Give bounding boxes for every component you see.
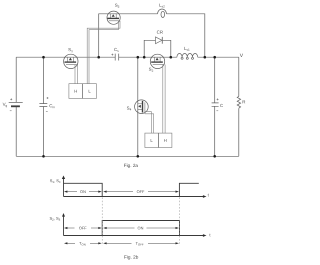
svg-text:S1: S1: [68, 47, 73, 53]
svg-text:Vg: Vg: [3, 102, 8, 108]
svg-text:L: L: [150, 138, 153, 143]
svg-text:H: H: [164, 138, 167, 143]
svg-text:ON: ON: [80, 189, 86, 194]
svg-text:V: V: [240, 53, 244, 59]
svg-text:S1, S4: S1, S4: [50, 178, 61, 184]
svg-text:H: H: [74, 89, 77, 94]
svg-text:Cs: Cs: [114, 47, 119, 53]
svg-text:L: L: [88, 89, 91, 94]
svg-text:TOFF: TOFF: [136, 241, 144, 247]
svg-text:S4: S4: [127, 106, 132, 112]
svg-text:Fig. 2b: Fig. 2b: [124, 255, 139, 260]
svg-text:OFF: OFF: [137, 189, 145, 194]
svg-text:S2: S2: [149, 67, 154, 73]
svg-text:Ls1: Ls1: [184, 46, 190, 52]
svg-text:ON: ON: [138, 225, 144, 230]
svg-text:t: t: [208, 192, 210, 197]
svg-text:Cin: Cin: [49, 103, 55, 109]
svg-text:CR: CR: [157, 30, 163, 35]
svg-text:Fig. 2a: Fig. 2a: [124, 163, 139, 168]
svg-text:Ls2: Ls2: [159, 3, 165, 9]
svg-text:TON: TON: [79, 241, 86, 247]
svg-text:OFF: OFF: [79, 225, 87, 230]
svg-text:C: C: [220, 103, 223, 108]
svg-text:t: t: [209, 232, 211, 237]
svg-text:S3: S3: [115, 3, 120, 9]
svg-text:R: R: [242, 99, 245, 104]
svg-text:S2, S3: S2, S3: [49, 216, 60, 222]
